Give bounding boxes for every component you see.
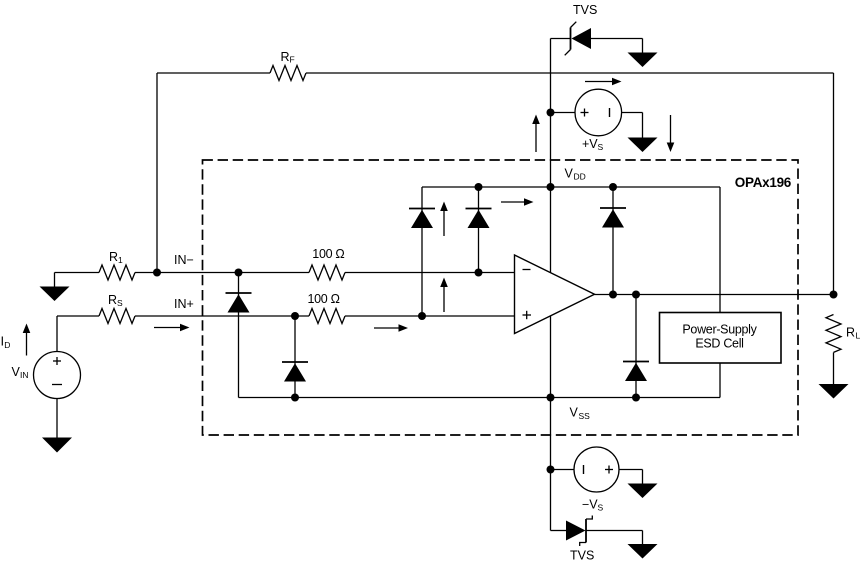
- svg-text:D: D: [4, 340, 10, 350]
- wire -VS right stub to ground: [619, 470, 643, 485]
- label TVS top: [573, 3, 597, 17]
- node D5-VDD junction: [609, 183, 617, 191]
- svg-text:OPAx196: OPAx196: [735, 175, 792, 190]
- svg-text:V: V: [565, 167, 574, 181]
- label TVS bottom: [570, 549, 594, 563]
- node D5-output junction: [609, 291, 617, 299]
- wire diode D6 branch vertical (x=636 from output to VSS): [635, 295, 637, 398]
- resistor R1: [99, 265, 135, 280]
- wire diode D3 branch vertical (x=422 from VDD to IN+): [421, 187, 423, 316]
- resistor 100ohm on IN-: [309, 265, 345, 280]
- diode D2 (VSS to IN+): [282, 362, 308, 382]
- wire bottom internal rail (y=397.5): [239, 397, 721, 399]
- wire IN- horizontal (y=272.5): [55, 272, 516, 274]
- TVS diode top: [565, 22, 591, 56]
- svg-text:R: R: [846, 326, 855, 340]
- node D1-IN- junction: [235, 269, 243, 277]
- svg-text:TVS: TVS: [573, 3, 597, 17]
- wire diode D2 branch vertical (x=295 from IN+ to bottom rail): [294, 316, 296, 398]
- arrow current up ID: [23, 324, 31, 356]
- node D2-IN+ junction: [291, 312, 299, 320]
- wire VIN bottom stub: [56, 399, 58, 439]
- label 100ohm IN+: [308, 292, 340, 306]
- svg-text:SS: SS: [579, 411, 591, 421]
- wire bottom TVS horizontal (y=530.5): [551, 531, 643, 545]
- ground below VIN: [42, 438, 72, 453]
- ground at +VS: [628, 138, 658, 153]
- arrow current up before op-amp: [440, 278, 448, 313]
- label VSS: [570, 406, 591, 422]
- svg-text:RF: RF: [281, 50, 295, 65]
- label RL: [846, 326, 861, 341]
- op-amp U1: [515, 255, 595, 334]
- node D4-VDD junction: [475, 183, 483, 191]
- svg-text:R1: R1: [109, 250, 123, 265]
- wire supply vertical main (x=550.5 from top TVS to bottom TVS): [550, 39, 552, 531]
- arrow current up between D3 and D4: [440, 202, 448, 237]
- node D3-IN+ junction: [418, 312, 426, 320]
- label R1: [109, 250, 123, 265]
- wire IN+ horizontal (y=316): [57, 315, 515, 317]
- label VDD: [565, 167, 586, 182]
- svg-text:RS: RS: [108, 293, 123, 308]
- ground bottom TVS: [628, 544, 658, 559]
- wire RL bottom stub: [833, 353, 835, 385]
- svg-text:100 Ω: 100 Ω: [308, 292, 340, 306]
- wire IN- left ground stub: [54, 273, 56, 288]
- label IN+: [174, 297, 194, 311]
- svg-text:Power-Supply: Power-Supply: [682, 323, 757, 337]
- arrow current up left of supply line: [532, 115, 540, 153]
- wire feedback vertical left (x=157): [156, 73, 158, 273]
- label RF: [281, 50, 295, 65]
- arrow current right before op-amp plus input: [374, 324, 408, 332]
- ground at -VS: [628, 484, 658, 499]
- node D2-bottom-rail junction: [291, 394, 299, 402]
- wire +VS right stub to ground: [622, 113, 643, 139]
- wire VDD rail (y=187): [422, 186, 720, 188]
- arrow current right on VDD rail: [501, 198, 534, 206]
- dashed OPAx196 boundary box: [203, 160, 799, 435]
- source +VS circle: [575, 89, 622, 136]
- source -VS circle: [574, 447, 619, 492]
- svg-text:L: L: [856, 331, 861, 341]
- node +VS tap junction: [547, 109, 555, 117]
- node D6-VSS junction: [632, 394, 640, 402]
- svg-text:−V: −V: [582, 498, 598, 512]
- node D6-output junction: [632, 291, 640, 299]
- label VIN: [12, 365, 29, 380]
- node feedback-IN- junction: [153, 269, 161, 277]
- diode D4 (IN- to VDD): [466, 209, 492, 229]
- node feedback-output-RL junction: [830, 291, 838, 299]
- power-supply ESD cell box: [660, 313, 782, 364]
- ground top TVS: [628, 53, 658, 68]
- node -VS tap junction: [547, 466, 555, 474]
- wire +VS left stub: [551, 112, 576, 114]
- node supply-VDD junction: [547, 183, 555, 191]
- label ID: [1, 334, 11, 351]
- diode D6 (VSS to output): [623, 362, 649, 382]
- wire ESD cell top connector (x=720): [719, 187, 721, 313]
- wire diode D5 branch vertical (x=613 from VDD to output): [612, 187, 614, 295]
- svg-text:100 Ω: 100 Ω: [312, 247, 344, 261]
- diode D1 (VSS to IN-): [226, 293, 252, 313]
- source VIN circle: [34, 352, 81, 399]
- resistor RS: [99, 309, 135, 324]
- svg-text:IN: IN: [20, 370, 29, 380]
- svg-text:S: S: [598, 503, 604, 513]
- node D4-IN- junction: [475, 269, 483, 277]
- resistor 100ohm on IN+: [309, 309, 345, 324]
- svg-text:V: V: [570, 406, 579, 420]
- svg-text:ESD Cell: ESD Cell: [695, 337, 743, 351]
- label RS: [108, 293, 123, 308]
- node supply-VSS junction: [547, 394, 555, 402]
- svg-text:IN−: IN−: [174, 253, 194, 267]
- diode D3 (IN+ to VDD): [409, 209, 435, 229]
- resistor RL: [826, 315, 841, 353]
- wire diode D1 branch vertical (x=238.5 from IN- to bottom rail): [238, 273, 240, 398]
- label 100ohm IN-: [312, 247, 344, 261]
- wire diode D4 branch vertical (x=478.5 from VDD to IN-): [478, 187, 480, 273]
- TVS diode bottom: [566, 516, 592, 547]
- wire ESD cell bottom connector (x=720): [719, 363, 721, 398]
- label +VS: [582, 137, 604, 152]
- svg-text:IN+: IN+: [174, 297, 194, 311]
- wire op-amp output (y=294.5): [595, 294, 834, 296]
- label -VS: [582, 498, 604, 513]
- svg-text:DD: DD: [574, 172, 586, 182]
- arrow current right after RS: [154, 324, 190, 332]
- wire VIN top stub: [56, 316, 58, 352]
- label OPAx196: [735, 175, 792, 190]
- resistor RF: [270, 66, 306, 81]
- arrow current right above +VS: [585, 78, 622, 86]
- diode D5 (output to VDD): [600, 208, 626, 228]
- label IN-: [174, 253, 194, 267]
- arrow current down right of +VS ground: [667, 115, 675, 152]
- ground at IN- left: [40, 287, 70, 302]
- svg-text:S: S: [598, 142, 604, 152]
- wire top TVS horizontal (y=38.5): [551, 39, 643, 54]
- wire feedback vertical right (x=833.5): [833, 73, 835, 295]
- wire feedback horizontal top (y=73): [157, 72, 834, 74]
- svg-text:TVS: TVS: [570, 549, 594, 563]
- ground below RL: [819, 384, 849, 399]
- svg-text:+V: +V: [582, 137, 598, 151]
- wire -VS left stub: [551, 469, 575, 471]
